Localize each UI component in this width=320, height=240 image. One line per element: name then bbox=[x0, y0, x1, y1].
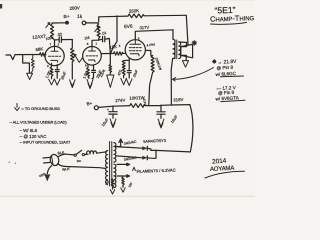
edge speck bbox=[0, 4, 2, 9]
label 274V bbox=[115, 98, 125, 104]
B+ terminal (right, open) bbox=[77, 14, 98, 25]
B+ rail down to rectifier bbox=[190, 105, 193, 152]
voltage note 17.2V bbox=[216, 85, 236, 91]
plate resistor 100K V1a bbox=[45, 23, 54, 47]
rail down to speaker bbox=[186, 15, 188, 44]
humdinger R1 bbox=[110, 179, 114, 194]
heater arrow 2 bbox=[117, 175, 130, 177]
svg-text:3: 3 bbox=[138, 37, 140, 41]
plate wire to OT bbox=[135, 30, 173, 40]
wire to rail bbox=[161, 104, 190, 106]
svg-text:– INPUT GROUNDED, 12AX7: – INPUT GROUNDED, 12AX7 bbox=[20, 140, 70, 145]
label 318V bbox=[173, 97, 183, 103]
plug safety ground bbox=[39, 166, 52, 182]
coupling cap .02 stage1 bbox=[55, 32, 73, 42]
svg-text:– ALL VOLTAGES UNDER (LOAD): – ALL VOLTAGES UNDER (LOAD) bbox=[10, 120, 68, 125]
title 5E1 bbox=[214, 5, 235, 16]
B+ terminal (left, filled) bbox=[64, 14, 70, 25]
filaments label bbox=[133, 167, 176, 174]
signature 2014 bbox=[212, 157, 227, 165]
cathode cap 25uF V1a bbox=[54, 65, 67, 86]
label pin4 bbox=[146, 42, 155, 47]
stray dots bbox=[9, 162, 17, 164]
rail hook to 250K bbox=[99, 16, 128, 22]
svg-text:1k: 1k bbox=[77, 14, 83, 20]
notes: input grounded bbox=[20, 140, 70, 145]
cathode ground V1b bbox=[87, 79, 93, 88]
svg-text:WHT: WHT bbox=[62, 167, 71, 172]
6V6 cathode R bbox=[117, 58, 129, 85]
title Champ-Thing bbox=[210, 13, 255, 24]
svg-text:@ Pin 8: @ Pin 8 bbox=[216, 65, 233, 71]
plate resistor V1b with arrow bbox=[95, 23, 100, 40]
voltage note 6V6GTA bbox=[215, 95, 245, 101]
svg-text:1M: 1M bbox=[84, 36, 90, 41]
svg-text:+: + bbox=[107, 108, 109, 112]
label 1M bbox=[84, 36, 90, 41]
wire to B+ bbox=[52, 22, 65, 24]
voltage note pin8 b bbox=[218, 90, 235, 96]
svg-text:250K: 250K bbox=[129, 8, 140, 14]
label 340VAC bottom bbox=[124, 156, 138, 162]
label 6V6 bbox=[124, 24, 133, 30]
svg-text:B+: B+ bbox=[86, 101, 93, 107]
humdinger R2 bbox=[121, 177, 125, 192]
OT bottom to B+ node bbox=[171, 59, 172, 105]
svg-text:– W/ 6L6: – W/ 6L6 bbox=[20, 128, 38, 133]
WHT wire bbox=[58, 164, 105, 172]
cathode cap V1b bbox=[92, 65, 103, 79]
6V6 cathode cap bbox=[126, 60, 138, 85]
grid stopper 15K bbox=[109, 44, 125, 55]
cathode R V1b bbox=[82, 64, 89, 79]
svg-text:– @ 120 VAC: – @ 120 VAC bbox=[20, 134, 47, 139]
speaker ground bbox=[182, 61, 188, 68]
jack ground branch bbox=[23, 55, 33, 80]
node to tube V1b plate side bbox=[101, 53, 111, 55]
asterisk by speaker bbox=[192, 41, 197, 46]
AC plug bbox=[43, 154, 60, 167]
diode 2 bbox=[116, 150, 156, 159]
voltage note pin8 a bbox=[216, 65, 233, 71]
notes: w/6L6 bbox=[20, 128, 38, 133]
B+ terminal power bbox=[86, 101, 113, 110]
screen feed node bbox=[142, 98, 149, 106]
svg-text:317V: 317V bbox=[139, 25, 149, 31]
rail drop to grid node bbox=[111, 15, 118, 53]
screen resistor 250/1W bbox=[149, 56, 163, 105]
input jack V1 bbox=[6, 55, 40, 60]
wire plate node to tube top bbox=[92, 40, 99, 47]
label rectifier bbox=[143, 139, 166, 144]
svg-text:2014: 2014 bbox=[212, 157, 227, 165]
voltage note 6L6GC bbox=[215, 71, 243, 77]
tube V1b bbox=[83, 42, 102, 68]
label 12AX7 bbox=[32, 34, 46, 40]
heater arrow 1 bbox=[117, 163, 130, 165]
humdinger labels bbox=[104, 180, 133, 189]
svg-text:15K: 15K bbox=[109, 44, 117, 50]
svg-text:= TO GROUND BUSS: = TO GROUND BUSS bbox=[21, 106, 60, 111]
power transformer bbox=[106, 142, 116, 188]
label 340VAC top bbox=[124, 140, 138, 146]
cathode R 1.5K V1a bbox=[45, 63, 54, 84]
label 200V bbox=[69, 5, 80, 11]
label 317V bbox=[139, 25, 149, 31]
BLK wire + switch + fuse bbox=[57, 150, 106, 163]
power tube 6V6 bbox=[119, 37, 146, 60]
signature Aoyama bbox=[205, 166, 245, 178]
grid leak to ground bbox=[99, 54, 114, 88]
voltage note 21.8V bbox=[213, 59, 238, 66]
filter node 2 / cap 2 bbox=[157, 105, 179, 129]
speaker bbox=[179, 42, 193, 60]
svg-text:318V: 318V bbox=[173, 97, 183, 103]
svg-text:274V: 274V bbox=[115, 98, 125, 104]
CT arrow bbox=[117, 139, 123, 146]
rectifier output wire bbox=[151, 150, 190, 152]
notes: ground buss bbox=[15, 104, 61, 112]
svg-text:B+: B+ bbox=[64, 14, 70, 20]
screen wire bbox=[145, 50, 152, 55]
grid resistor to ground bbox=[31, 55, 34, 73]
notes: 120VAC bbox=[20, 134, 47, 139]
svg-text:68K: 68K bbox=[35, 46, 43, 52]
notes: all voltages bbox=[10, 120, 68, 125]
filter cap 1 bbox=[100, 106, 117, 127]
coupling cap .01 bbox=[99, 31, 111, 53]
callout curve bbox=[173, 68, 214, 82]
resistor 250K bbox=[128, 8, 186, 18]
volume pot 1M bbox=[70, 40, 83, 88]
tube V1a 12AX7 bbox=[45, 42, 64, 68]
resistor 10K/1W bbox=[129, 95, 161, 107]
diode 1 bbox=[116, 146, 151, 150]
output transformer bbox=[173, 39, 181, 58]
svg-text:6V6: 6V6 bbox=[124, 24, 133, 30]
resistor 68K bbox=[35, 46, 46, 56]
svg-text:200V: 200V bbox=[69, 5, 80, 11]
filter node 1 bbox=[112, 105, 130, 107]
